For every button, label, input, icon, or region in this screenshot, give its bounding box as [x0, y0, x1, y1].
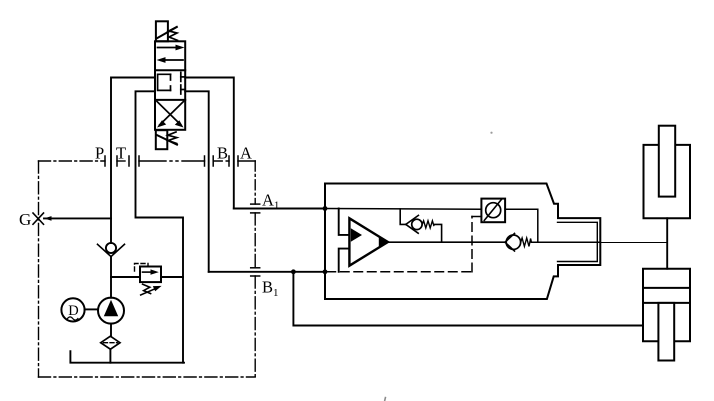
valve V1 position 2 (centre): blocked ports, small chamber box: [158, 72, 186, 94]
svg-text:A: A: [240, 144, 252, 163]
solenoid valve V1 body: [155, 41, 185, 130]
manifold neck inner lines: [558, 222, 598, 261]
wire: relief valve to tank drop: [161, 276, 183, 278]
wire: pump line to relief valve: [111, 276, 140, 278]
lower cylinder CYL2 body: [643, 269, 690, 342]
manifold block outline: [325, 184, 600, 300]
svg-text:T: T: [116, 144, 126, 163]
spring return (bottom): [168, 132, 177, 144]
wire: CV1 to main line: [434, 224, 442, 242]
wire: main line to block edge: [531, 241, 600, 243]
relief valve spring: [143, 284, 151, 293]
upper cylinder rod/plunger: [659, 126, 675, 197]
wire: valve port B down to B1 line: [185, 91, 209, 271]
check valve CV3 (pump discharge): [106, 243, 116, 253]
wire: thin line from block to cylinders: [600, 242, 667, 244]
wire: check valve to pump: [110, 257, 112, 298]
wire: junction to upper cylinder: [666, 218, 668, 268]
wire: orifice outlet down to main line: [505, 209, 538, 242]
port B tick marks: [205, 156, 214, 166]
wire: stub A1 to logic element upper input: [339, 209, 350, 235]
orifice / throttle valve O1 (square with ball): [481, 199, 505, 223]
tank (reservoir): [70, 351, 184, 363]
power unit envelope (dash-dot boundary): [39, 161, 256, 377]
boundary left edge: [38, 161, 40, 377]
boundary top-right solid corner segment (A port to corner): [238, 160, 255, 162]
motor-pump coupling: [85, 308, 98, 310]
wire: B1 branch down and across to lower cylinder: [293, 272, 643, 326]
relief valve RV1: [140, 267, 161, 283]
wire: pump suction to filter: [110, 324, 112, 337]
electric motor M1: [61, 298, 84, 321]
boundary top edge segments: [39, 160, 106, 162]
wire: valve port P down to pump line: [111, 78, 155, 244]
stray dot (scan artifact): [490, 132, 492, 134]
wire: A1 line to manifold: [234, 208, 325, 210]
check valve CV2 on main line: [505, 233, 515, 251]
valve V1 position 3: crossed arrows: [157, 102, 184, 126]
stray mark (scan artifact): [385, 397, 386, 401]
svg-text:P: P: [95, 144, 104, 163]
junction node A1 at manifold: [323, 206, 328, 211]
port G symbol (plugged test point X): [33, 213, 44, 224]
port P tick marks: [105, 156, 117, 166]
solenoid actuator (bottom): [156, 130, 177, 149]
filter F1: [101, 336, 120, 349]
wire: G gauge line with arrowhead: [44, 217, 111, 219]
spring return (top): [169, 27, 178, 41]
pilot line (dashed) from B1 to orifice valve: [327, 271, 472, 273]
valve V1 position 1: parallel arrows: [158, 48, 184, 61]
solenoid actuator (top): [156, 21, 177, 41]
relief valve adjustment arrow: [141, 288, 158, 296]
wire: valve port A down to A1 line: [185, 78, 234, 209]
junction node B1-cylinder branch: [291, 269, 296, 274]
wire: B1 line to manifold: [209, 271, 325, 273]
wire: stub B1 to logic element lower input: [339, 249, 350, 272]
pilot-operated cartridge element (large triangle) U1: [349, 218, 388, 265]
port A tick marks: [229, 156, 238, 166]
check valve CV1: [406, 215, 419, 233]
port T tick marks: [129, 156, 139, 166]
pump P1: [98, 298, 124, 324]
lower cylinder piston: [643, 287, 690, 289]
port B1 tick marks: [251, 268, 260, 276]
wire: branch A1 line down to check valve CV1: [400, 209, 406, 224]
upper cylinder (plunger ram) CYL1 body: [644, 145, 691, 218]
lower cylinder rod: [658, 303, 674, 361]
wire: A1 internal line to orifice: [325, 208, 481, 211]
junction node B1 at manifold: [323, 269, 328, 274]
boundary right edge segments: [254, 161, 256, 204]
boundary bottom edge: [39, 376, 256, 378]
relief valve pilot (dashed box): [135, 264, 149, 272]
svg-text:B: B: [217, 144, 228, 163]
wire: valve port T to tank drop: [136, 91, 184, 362]
wire: main output line of cartridge: [388, 241, 505, 243]
svg-text:G: G: [19, 210, 31, 229]
wire: filter to tank: [109, 349, 111, 363]
port A1 tick marks: [251, 204, 260, 213]
